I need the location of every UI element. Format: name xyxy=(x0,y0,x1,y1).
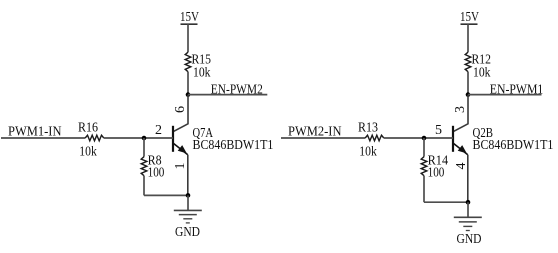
svg-text:BC846BDW1T1: BC846BDW1T1 xyxy=(473,137,554,152)
wire base node to R14 top xyxy=(423,138,425,157)
ground symbol (right) xyxy=(454,217,482,230)
wire base node to R8 top xyxy=(143,138,145,157)
svg-text:GND: GND xyxy=(457,231,482,246)
svg-text:100: 100 xyxy=(148,164,165,179)
power rail +15V (right) xyxy=(461,23,478,25)
wire ground rail (left) xyxy=(144,194,188,196)
junction dot collector node (right) xyxy=(466,92,471,97)
svg-text:10k: 10k xyxy=(473,65,491,80)
wire PWM1-IN input to R16 xyxy=(1,137,85,139)
junction dot emitter-ground node (left) xyxy=(186,193,191,198)
wire 15V bar to R12 top xyxy=(467,24,469,52)
wire R12 bottom to collector node xyxy=(467,72,469,95)
wire ground rail (right) xyxy=(424,201,468,203)
resistor R14 xyxy=(421,157,427,176)
svg-text:2: 2 xyxy=(155,123,162,138)
svg-text:10k: 10k xyxy=(193,65,211,80)
resistor R15 xyxy=(185,52,191,71)
resistor R13 xyxy=(365,135,384,141)
svg-text:100: 100 xyxy=(428,164,445,179)
svg-text:4: 4 xyxy=(454,163,469,170)
svg-text:PWM2-IN: PWM2-IN xyxy=(288,124,342,139)
svg-text:6: 6 xyxy=(173,106,188,113)
wire PWM2-IN input to R13 xyxy=(281,137,365,139)
svg-text:R16: R16 xyxy=(78,119,98,134)
wire 15V bar to R15 top xyxy=(187,24,189,52)
svg-text:R13: R13 xyxy=(358,119,378,134)
wire R14 bottom to ground rail xyxy=(423,176,425,203)
wire Q7A emitter pin 1 xyxy=(187,155,189,196)
wire Q7A collector pin 6 xyxy=(173,95,188,132)
transistor Q7A xyxy=(173,126,188,155)
wire to ground symbol (left) xyxy=(187,195,189,210)
svg-text:PWM1-IN: PWM1-IN xyxy=(8,124,62,139)
transistor Q2B xyxy=(453,126,468,155)
wire to ground symbol (right) xyxy=(467,202,469,217)
svg-text:EN-PWM2: EN-PWM2 xyxy=(211,81,263,96)
wire R8 bottom to ground rail xyxy=(143,176,145,196)
junction dot base node (right) xyxy=(422,136,427,141)
wire net EN-PWM2 xyxy=(188,94,267,96)
ground symbol (left) xyxy=(174,210,202,223)
junction dot emitter-ground node (right) xyxy=(466,200,471,205)
resistor R16 xyxy=(85,135,104,141)
wire R15 bottom to collector node xyxy=(187,72,189,95)
svg-text:BC846BDW1T1: BC846BDW1T1 xyxy=(193,137,274,152)
wire Q2B emitter pin 4 xyxy=(467,155,469,202)
svg-text:15V: 15V xyxy=(180,9,199,24)
svg-text:1: 1 xyxy=(173,163,188,170)
wire Q2B collector pin 3 xyxy=(453,95,468,132)
wire R13 to Q2B base xyxy=(384,137,453,139)
svg-text:5: 5 xyxy=(435,123,442,138)
svg-text:10k: 10k xyxy=(79,144,97,159)
svg-text:10k: 10k xyxy=(359,144,377,159)
wire net EN-PWM1 xyxy=(468,94,542,96)
svg-text:15V: 15V xyxy=(460,9,479,24)
junction dot base node (left) xyxy=(142,136,147,141)
power rail +15V (left) xyxy=(181,23,198,25)
wire R16 to Q7A base xyxy=(104,137,173,139)
svg-text:GND: GND xyxy=(175,224,200,239)
resistor R8 xyxy=(141,157,147,176)
junction dot collector node (left) xyxy=(186,92,191,97)
resistor R12 xyxy=(465,52,471,71)
svg-text:3: 3 xyxy=(453,106,468,113)
svg-text:EN-PWM1: EN-PWM1 xyxy=(490,81,544,96)
